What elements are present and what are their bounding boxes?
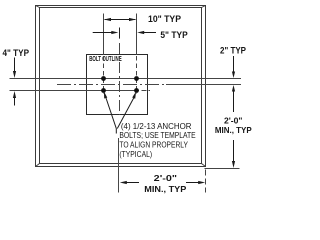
dimension 5in right arrow <box>142 32 156 34</box>
svg-text:BOLT OUTLINE: BOLT OUTLINE <box>89 56 122 63</box>
dimension 5in left arrow <box>93 32 113 34</box>
pad corner chamfer top-left <box>36 6 40 8</box>
horizontal centerline dash-dot <box>57 84 166 86</box>
bottom bolt row line dash-dot tail <box>142 90 151 92</box>
horizontal centerline solid right extension <box>166 84 241 86</box>
svg-text:10" TYP: 10" TYP <box>148 14 181 24</box>
anchor bolt template outline <box>87 55 148 115</box>
leader tail <box>115 129 117 134</box>
svg-text:2'-0": 2'-0" <box>154 173 177 183</box>
svg-text:(TYPICAL): (TYPICAL) <box>119 149 152 159</box>
pad corner chamfer bottom-left <box>36 164 40 167</box>
leader line to bottom-left bolt <box>106 97 117 129</box>
left bolt column dashed line <box>103 56 105 94</box>
2in dim up arrow <box>233 90 235 112</box>
svg-text:MIN., TYP: MIN., TYP <box>144 184 186 194</box>
top bolt row line <box>10 78 242 80</box>
svg-text:MIN., TYP: MIN., TYP <box>215 125 252 135</box>
vertical centerline tick at 5in dim <box>119 28 121 39</box>
pad corner chamfer top-right <box>202 6 206 8</box>
vertical centerline dash-dot <box>119 43 121 115</box>
svg-text:5" TYP: 5" TYP <box>160 30 187 40</box>
svg-text:4" TYP: 4" TYP <box>3 48 30 58</box>
right bolt column dashed line <box>136 56 138 94</box>
4in dim up arrow <box>14 96 16 106</box>
leader line to bottom-right bolt <box>117 97 134 129</box>
anchor bolt top-left <box>101 76 106 81</box>
4in dim down arrow <box>14 58 16 74</box>
anchor bolt bottom-left <box>101 88 106 93</box>
bottom dim line left arrow <box>125 182 139 184</box>
bottom bolt row line <box>10 90 140 92</box>
anchor bolt top-right <box>134 76 139 81</box>
bottom dim right extension line <box>205 170 207 193</box>
anchor bolt bottom-right <box>134 88 139 93</box>
dimension line 10in <box>105 19 136 21</box>
vertical centerline lower extension <box>118 138 120 193</box>
left bolt column extension line <box>103 14 105 56</box>
bottom dim line right arrow <box>186 182 200 184</box>
concrete pad inner square <box>40 8 202 164</box>
right dim down arrow to bottom edge <box>233 140 235 163</box>
2in dim down arrow <box>233 56 235 74</box>
bottom edge right extension line <box>205 168 240 170</box>
concrete pad outer square <box>36 6 206 167</box>
svg-text:2" TYP: 2" TYP <box>220 46 246 56</box>
right bolt column extension line <box>136 14 138 56</box>
pad corner chamfer bottom-right <box>202 164 206 167</box>
